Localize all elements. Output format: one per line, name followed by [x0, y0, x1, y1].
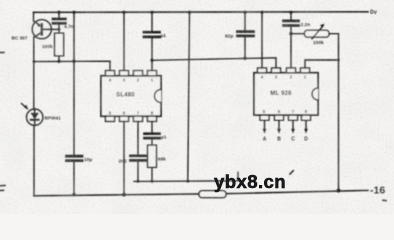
- IC U2 ML926 body: [254, 73, 318, 115]
- junction top rail / V189 wire: [188, 11, 191, 14]
- potentiometer R4 100k: [291, 24, 339, 39]
- wire U2 pin4 to rail: [261, 12, 263, 68]
- U1 bottom pins: [106, 116, 157, 121]
- U1 top pin numbers: [109, 77, 154, 82]
- capacitor C3 u1: [144, 32, 160, 70]
- wire H61 to pin4: [34, 61, 110, 71]
- junction H181 / R2 lead: [151, 180, 154, 183]
- junction H61 / V74 wire: [72, 60, 75, 63]
- wire top rail 0v: [34, 11, 369, 14]
- op-amp U1 SL480 body: [101, 76, 161, 116]
- junction H181 / C6 lead: [137, 180, 140, 183]
- junction top rail / C4 branch: [243, 11, 246, 14]
- labels A B C D: [263, 137, 309, 143]
- wire V189: [188, 12, 190, 181]
- resistor R2 68k: [148, 145, 157, 167]
- junction top rail / U2 pin4: [260, 11, 263, 14]
- wire H181: [134, 173, 238, 182]
- wire H59: [152, 58, 276, 69]
- capacitor C1 4.7n: [53, 12, 65, 33]
- wire U2 pin1 net: [305, 60, 339, 68]
- junction C5 lead / pot left terminal: [289, 32, 292, 35]
- U2 top pins: [258, 68, 310, 73]
- scan edge artifacts: [0, 53, 386, 201]
- junction H59 / C4 lead: [243, 57, 246, 60]
- resistor R1 100k: [55, 33, 64, 56]
- junction top rail / U1 pin3: [122, 11, 125, 14]
- wire left rail upper: [33, 12, 35, 21]
- U1 bottom pin numbers: [109, 110, 154, 115]
- capacitor C7 u1: [145, 134, 160, 146]
- svg-text:ybx8.cn: ybx8.cn: [214, 171, 286, 192]
- junction H61 / left rail: [33, 60, 36, 63]
- wire pot right down V338: [338, 34, 340, 191]
- U1 top pins: [106, 71, 157, 76]
- junction bottom rail / U1 pin6 wire: [122, 193, 126, 197]
- wire V74: [73, 12, 75, 155]
- photodiode D1 BPW41: [27, 109, 43, 125]
- junction pot right / U2 pin1 net: [337, 59, 340, 62]
- wire bottom rail right part: [226, 190, 368, 193]
- capacitor C6 2n2: [131, 156, 146, 182]
- junction top rail / C3 branch: [150, 11, 153, 14]
- capacitor C4 82p: [238, 12, 254, 58]
- U2 bottom pins: [260, 115, 311, 120]
- junction H59 / C3 lead: [150, 59, 153, 62]
- wire U1 pin6 down: [123, 121, 125, 194]
- junction bottom rail / C2 lead: [72, 193, 76, 197]
- wire U1 pin3 to rail: [123, 12, 125, 70]
- U2 output arrows A B C D: [263, 120, 308, 133]
- wire U1 pin7 down: [137, 121, 139, 155]
- junction Q1 base / C1-R1 node: [58, 28, 61, 31]
- resistor R5 (inline bottom rail): [199, 191, 226, 198]
- wire left rail mid: [33, 37, 35, 110]
- capacitor C5 2.2n: [284, 21, 299, 68]
- wire U1 pin1 branch upper: [151, 12, 153, 31]
- photodiode light arrow: [22, 104, 29, 111]
- U2 bottom pin numbers: [263, 109, 308, 114]
- U2 top pin numbers: [261, 74, 307, 79]
- junction bottom rail / V338 wire: [337, 189, 341, 193]
- junction R1 bottom / H61 wire: [57, 60, 60, 63]
- wire U1 pin8 down: [151, 121, 153, 132]
- junction top rail / C1: [57, 11, 60, 14]
- junction H181 / V189 wire: [186, 180, 189, 183]
- junction top rail / U2 pin2 branch: [289, 11, 292, 14]
- transistor Q1 BC307: [32, 20, 59, 39]
- wire U2 pin2 to rail: [290, 12, 292, 20]
- wire 68k bottom: [151, 167, 153, 181]
- wire left rail lower: [33, 125, 35, 196]
- wire resistor bottom: [58, 56, 60, 62]
- junction top rail / C2 branch: [72, 11, 75, 14]
- capacitor C2 10u: [67, 156, 83, 194]
- wire bottom rail -16: [34, 194, 199, 196]
